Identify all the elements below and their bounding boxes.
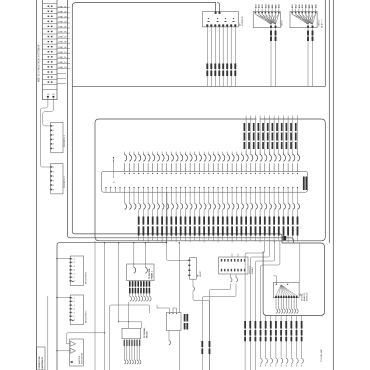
svg-text:LINE_07: LINE_07 xyxy=(58,37,67,39)
svg-text:FRAME 1: FRAME 1 xyxy=(151,271,154,279)
jack strip lower contact dots xyxy=(105,187,298,192)
svg-text:AD1: AD1 xyxy=(254,4,257,8)
wire net to boxB xyxy=(157,305,170,308)
CG1 wire labels xyxy=(270,31,276,42)
svg-text:5: 5 xyxy=(53,185,55,187)
svg-text:4: 4 xyxy=(53,180,55,182)
big box switching matrix outline xyxy=(95,119,325,241)
bottom right box DA unit xyxy=(263,243,324,316)
svg-text:VERST: VERST xyxy=(200,270,202,277)
connector group CG1 xyxy=(253,3,281,86)
svg-text:f 6: f 6 xyxy=(73,316,75,318)
svg-text:4: 4 xyxy=(53,139,55,141)
svg-text:1: 1 xyxy=(53,126,55,128)
svg-text:KOPPLER: KOPPLER xyxy=(242,16,244,26)
distribution drop wires xyxy=(133,243,135,267)
svg-text:AD8: AD8 xyxy=(315,4,318,8)
DA converter box with fan xyxy=(273,282,299,313)
signal box A with comb xyxy=(122,328,141,364)
svg-text:DIAGRAM NF: DIAGRAM NF xyxy=(41,356,44,370)
bus wire y86 xyxy=(72,85,325,87)
receiver 2 box xyxy=(70,295,84,324)
jack strip label xyxy=(303,177,305,191)
svg-text:AD7: AD7 xyxy=(311,4,314,8)
spare jack hooks row xyxy=(125,192,136,209)
receiver 1 box xyxy=(70,256,84,285)
top box U1 (NF coupler) xyxy=(202,12,238,27)
wire net left xyxy=(128,302,130,328)
svg-text:AD2: AD2 xyxy=(258,4,261,8)
svg-text:c 3: c 3 xyxy=(73,266,75,268)
svg-text:PLUGBOX 1: PLUGBOX 1 xyxy=(64,134,66,147)
svg-text:3: 3 xyxy=(53,176,55,178)
svg-text:LINE_04: LINE_04 xyxy=(58,22,67,24)
labels mid wires xyxy=(201,341,210,354)
svg-text:LINE_06: LINE_06 xyxy=(58,32,67,34)
wire W1 long left xyxy=(68,0,294,243)
svg-text:b 2: b 2 xyxy=(73,301,75,303)
wire service B xyxy=(235,274,237,277)
svg-text:AD6: AD6 xyxy=(308,4,311,8)
box2 left edge extension xyxy=(94,241,96,370)
signal box B label xyxy=(184,314,186,322)
svg-text:INDICATOR: INDICATOR xyxy=(80,353,83,364)
svg-text:EINHEIT: EINHEIT xyxy=(252,266,254,274)
labeled matrix output wires xyxy=(138,192,300,242)
svg-text:BLATT 2: BLATT 2 xyxy=(321,19,324,28)
wire into DA box xyxy=(273,276,276,284)
U1 wire labels xyxy=(206,64,236,77)
svg-text:d 4: d 4 xyxy=(73,309,75,311)
sheet right border xyxy=(332,0,334,370)
svg-text:1: 1 xyxy=(53,167,55,169)
trunk wire to receivers xyxy=(57,192,167,370)
bold net label on W1 xyxy=(283,236,287,240)
svg-text:e 5: e 5 xyxy=(73,312,75,314)
svg-text:AD3: AD3 xyxy=(298,4,301,8)
service box top ticks xyxy=(231,254,233,258)
strip entry wire N xyxy=(113,157,116,183)
svg-text:2: 2 xyxy=(53,171,55,173)
svg-text:NF: NF xyxy=(47,94,50,96)
svg-text:RECEIVER 2: RECEIVER 2 xyxy=(86,310,88,323)
svg-text:AD5: AD5 xyxy=(305,4,308,8)
svg-text:LINE_12: LINE_12 xyxy=(58,62,67,64)
wire W2 branch to U1 pin2 xyxy=(217,3,219,12)
wire NF-b to plugbox1 xyxy=(43,98,54,126)
svg-text:LINE_11: LINE_11 xyxy=(58,57,67,59)
top section right edge xyxy=(324,0,326,86)
wire master feedback xyxy=(67,333,105,344)
wire net mid xyxy=(110,305,150,370)
svg-text:AD5: AD5 xyxy=(268,4,271,8)
svg-text:LINE_13: LINE_13 xyxy=(58,67,67,69)
wire service A xyxy=(230,274,232,277)
wire x104.5 drop xyxy=(104,243,106,370)
svg-text:VERT 1: VERT 1 xyxy=(282,19,284,27)
distribution comb wires xyxy=(129,281,151,302)
svg-text:LINE_01: LINE_01 xyxy=(58,6,67,8)
svg-text:AD2: AD2 xyxy=(294,4,297,8)
plugbox 2 xyxy=(50,164,63,194)
sheet left border xyxy=(36,0,38,370)
jack strip box xyxy=(102,172,308,193)
svg-text:DA: DA xyxy=(299,293,302,296)
master indicator box U5 xyxy=(70,339,84,366)
svg-text:2: 2 xyxy=(53,130,55,132)
svg-text:AD8: AD8 xyxy=(278,4,281,8)
bottom vertical wires with labels xyxy=(244,316,303,367)
strip NF pins xyxy=(47,94,56,97)
svg-text:AD4: AD4 xyxy=(301,3,304,8)
svg-text:a 1: a 1 xyxy=(73,259,75,261)
svg-text:b 2: b 2 xyxy=(73,262,75,264)
svg-text:MASTER: MASTER xyxy=(78,355,81,364)
jack plug curl row J1-J38 xyxy=(125,152,300,172)
jack strip upper contact dots xyxy=(124,173,298,174)
svg-text:N: N xyxy=(114,181,116,183)
terminal strip MDF X1 xyxy=(43,0,58,100)
trunk branch receiver1 xyxy=(57,258,70,260)
wire NF amp down xyxy=(192,279,194,286)
svg-text:AD3: AD3 xyxy=(261,4,264,8)
svg-text:LINE_09: LINE_09 xyxy=(58,47,67,49)
svg-text:a 1: a 1 xyxy=(73,298,75,300)
svg-text:e 5: e 5 xyxy=(73,273,75,275)
svg-text:LINE_05: LINE_05 xyxy=(58,27,67,29)
staircase wires to bottom bus xyxy=(245,241,280,370)
leader line title xyxy=(47,296,49,370)
CG2 wire labels xyxy=(307,31,313,42)
LINE_01..LINE_13 stub labels xyxy=(57,6,70,69)
wire x118.6 drop xyxy=(118,243,120,322)
service connector box xyxy=(219,257,249,274)
svg-text:LINE_10: LINE_10 xyxy=(58,52,67,54)
signal box B xyxy=(167,308,182,370)
plugbox 1 xyxy=(50,122,63,152)
svg-text:CONNECTING: CONNECTING xyxy=(39,356,41,370)
svg-text:LINE_03: LINE_03 xyxy=(58,16,67,18)
wire NF-a to plugbox2 xyxy=(40,98,50,168)
svg-text:LINE_08: LINE_08 xyxy=(58,42,67,44)
svg-text:LINE_02: LINE_02 xyxy=(58,11,67,13)
connector group CG2 xyxy=(290,3,318,86)
distribution box xyxy=(127,264,154,281)
svg-text:TO LINE AMP: TO LINE AMP xyxy=(320,348,323,362)
svg-text:c 3: c 3 xyxy=(73,305,75,307)
spare stubs xyxy=(57,74,66,84)
svg-text:ANALOG: ANALOG xyxy=(303,292,306,301)
title box xyxy=(37,347,46,370)
trunk branch master 2 xyxy=(57,350,70,352)
svg-text:MELDE: MELDE xyxy=(146,331,148,338)
svg-text:AD6: AD6 xyxy=(271,4,274,8)
wire x179 down xyxy=(178,243,180,313)
svg-text:6: 6 xyxy=(53,189,55,191)
svg-text:5: 5 xyxy=(53,144,55,146)
svg-text:AD1: AD1 xyxy=(291,4,294,8)
wire to NF amp xyxy=(167,243,189,261)
svg-text:3: 3 xyxy=(53,135,55,137)
svg-text:PLUGBOX 2: PLUGBOX 2 xyxy=(64,175,66,188)
svg-text:VERT 2: VERT 2 xyxy=(318,19,320,27)
svg-text:RECEIVER 1: RECEIVER 1 xyxy=(86,271,88,284)
svg-text:AD7: AD7 xyxy=(274,4,277,8)
svg-text:6: 6 xyxy=(53,148,55,150)
svg-text:AD4: AD4 xyxy=(264,3,267,8)
svg-text:MDF-32-16 MULTIKON SYSTEM N: MDF-32-16 MULTIKON SYSTEM NF xyxy=(39,44,41,82)
matrix input wires with labels xyxy=(244,116,298,155)
svg-text:f 6: f 6 xyxy=(73,277,75,279)
trunk branch receiver2 xyxy=(57,297,70,299)
NF amplifier box xyxy=(188,258,196,280)
frame right middle line xyxy=(328,0,330,243)
wire W2 long right xyxy=(72,3,282,243)
U1 output wires to bus xyxy=(207,27,235,86)
svg-text:NF: NF xyxy=(53,94,56,96)
svg-text:d 4: d 4 xyxy=(73,270,75,272)
svg-text:MODULE: MODULE xyxy=(307,292,309,301)
